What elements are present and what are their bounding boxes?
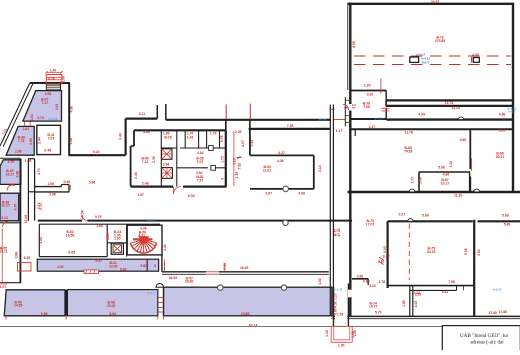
svg-text:6.65: 6.65 bbox=[68, 250, 75, 254]
svg-text:2.48: 2.48 bbox=[142, 182, 149, 186]
svg-text:0.62: 0.62 bbox=[383, 255, 390, 259]
svg-text:7.07: 7.07 bbox=[197, 160, 204, 164]
svg-text:7.08: 7.08 bbox=[363, 105, 370, 109]
svg-text:4.31: 4.31 bbox=[334, 301, 338, 308]
red arc below room B-39 bbox=[3, 222, 9, 228]
svg-text:4.50: 4.50 bbox=[472, 53, 479, 57]
stair tread 1 bbox=[47, 84, 60, 86]
svg-text:16.20: 16.20 bbox=[240, 266, 249, 270]
red tick band2 3 bbox=[157, 316, 159, 320]
red mark notch bbox=[69, 185, 71, 190]
small rooms divider h bbox=[107, 242, 126, 244]
svg-text:7.98: 7.98 bbox=[448, 280, 455, 284]
red box symbol left bbox=[18, 263, 32, 272]
svg-text:4.99: 4.99 bbox=[298, 191, 305, 195]
svg-text:0.80: 0.80 bbox=[15, 171, 19, 178]
svg-text:1.76: 1.76 bbox=[379, 280, 386, 284]
svg-text:12.74: 12.74 bbox=[445, 101, 454, 105]
elevator red X bbox=[113, 245, 122, 253]
svg-text:5.68: 5.68 bbox=[140, 264, 147, 268]
wall B-72 strip right bbox=[332, 105, 334, 316]
svg-text:3.25: 3.25 bbox=[232, 158, 236, 165]
svg-text:26.87: 26.87 bbox=[431, 0, 440, 4]
svg-text:17.07: 17.07 bbox=[366, 223, 375, 227]
door gap V12 lower bbox=[348, 290, 352, 298]
svg-text:11.20: 11.20 bbox=[454, 193, 462, 197]
svg-text:2.88: 2.88 bbox=[15, 149, 22, 153]
svg-text:4.94: 4.94 bbox=[39, 237, 43, 244]
wall rooms col top bbox=[28, 158, 34, 160]
svg-text:1.13: 1.13 bbox=[413, 291, 420, 295]
elevator outer box bbox=[111, 243, 123, 254]
svg-text:7.12: 7.12 bbox=[142, 160, 149, 164]
svg-text:23.30: 23.30 bbox=[109, 265, 118, 269]
svg-text:h=2.7: h=2.7 bbox=[508, 110, 516, 114]
red stub above H2 a bbox=[225, 105, 227, 120]
svg-text:0.85: 0.85 bbox=[334, 308, 338, 315]
svg-text:1.68: 1.68 bbox=[419, 177, 423, 184]
red dim cross V12 bbox=[344, 107, 356, 109]
corridor B-57a fill (bottom band cell 3) bbox=[164, 287, 332, 316]
svg-text:2.96: 2.96 bbox=[49, 193, 56, 197]
partition x470 lower bbox=[469, 177, 471, 193]
svg-text:14.55: 14.55 bbox=[14, 304, 23, 308]
wall b-r closer bbox=[456, 286, 458, 291]
svg-text:1.43: 1.43 bbox=[187, 136, 194, 140]
band2 stair tread 2 bbox=[158, 302, 163, 304]
room B-67 top wall bbox=[419, 171, 470, 173]
door box on wall 2 bbox=[211, 165, 216, 170]
column on band2 a bbox=[218, 285, 223, 290]
door marks B-78 right bbox=[382, 108, 390, 111]
red cross corridor h bbox=[237, 157, 242, 159]
svg-text:0.60: 0.60 bbox=[460, 138, 467, 142]
corridor wall lower right bbox=[387, 118, 514, 120]
svg-text:10.17: 10.17 bbox=[441, 181, 450, 185]
svg-text:1.40: 1.40 bbox=[325, 330, 329, 337]
svg-text:13.14: 13.14 bbox=[451, 106, 460, 110]
shaft 1 box bbox=[162, 149, 172, 160]
room B-57 bottom wall 2 bbox=[162, 273, 329, 275]
block right wall upper ext bbox=[225, 120, 227, 131]
wall notch h bbox=[62, 184, 69, 186]
red dim vline B78 bbox=[380, 79, 382, 94]
stair tread red 1 bbox=[47, 76, 61, 78]
svg-text:1.75: 1.75 bbox=[235, 172, 239, 179]
svg-text:4.96: 4.96 bbox=[499, 112, 506, 116]
block top row bottom a bbox=[161, 147, 177, 149]
door arc room3 bbox=[7, 184, 14, 191]
svg-text:5.49: 5.49 bbox=[504, 222, 511, 226]
shaft 2 box bbox=[162, 168, 173, 179]
door arc corridor gap bbox=[82, 215, 87, 220]
red dim hatch mark 2 bbox=[379, 262, 384, 265]
svg-text:5: 5 bbox=[154, 264, 156, 268]
svg-text:5: 5 bbox=[220, 178, 224, 180]
band2 divider wall bbox=[65, 290, 67, 316]
block left jog bbox=[131, 145, 134, 147]
svg-text:1.27: 1.27 bbox=[334, 293, 338, 300]
svg-text:7.62: 7.62 bbox=[238, 163, 242, 170]
wall inner diagonal bbox=[3, 84, 33, 147]
svg-text:b=141: b=141 bbox=[319, 117, 327, 121]
block bottom wall a bbox=[131, 186, 173, 188]
stair arc bump band2 bbox=[156, 284, 164, 288]
band2 stair tread 1 bbox=[158, 297, 163, 299]
red hatched door on band1 bbox=[84, 270, 99, 274]
block top row bottom c bbox=[212, 147, 226, 149]
block mid divider b bbox=[213, 167, 226, 169]
title block box bbox=[442, 326, 520, 351]
room B-62 bottom bbox=[39, 256, 107, 258]
block inner v x206 bbox=[206, 130, 208, 148]
door box on wall 1 bbox=[209, 146, 214, 151]
svg-text:b=1.5: b=1.5 bbox=[147, 291, 155, 295]
door line room1-2 a bbox=[24, 121, 26, 126]
room B-39 fill bbox=[0, 193, 19, 221]
svg-text:2.91: 2.91 bbox=[55, 104, 59, 111]
svg-text:1.40: 1.40 bbox=[353, 330, 357, 337]
svg-text:2.02: 2.02 bbox=[414, 301, 418, 308]
svg-text:1.08: 1.08 bbox=[25, 159, 32, 163]
wall door jamb stub 1 bbox=[156, 105, 158, 119]
wall room3 top piece bbox=[0, 157, 20, 159]
svg-text:0.90: 0.90 bbox=[357, 275, 364, 279]
door leaf corridor gap bbox=[81, 215, 83, 220]
svg-text:1.85: 1.85 bbox=[402, 300, 406, 307]
elevator inner box bbox=[113, 245, 122, 253]
svg-text:3.88: 3.88 bbox=[14, 252, 18, 259]
red dim vline band1 end bbox=[164, 260, 166, 272]
wall x413 down b bbox=[412, 286, 414, 317]
svg-text:5.66: 5.66 bbox=[502, 214, 509, 218]
svg-text:7.78: 7.78 bbox=[18, 139, 25, 143]
block inner v x185 bbox=[184, 130, 186, 148]
block mid divider a bbox=[177, 167, 208, 169]
svg-text:1.67: 1.67 bbox=[337, 312, 344, 316]
svg-text:6.42: 6.42 bbox=[442, 290, 449, 294]
exit stair inner box (red) bbox=[334, 326, 350, 340]
hall dashed line 1 bbox=[354, 55, 511, 57]
wall stair tread r3 bbox=[345, 114, 351, 116]
svg-text:24.88: 24.88 bbox=[241, 312, 250, 316]
wall vertical jog x125 bbox=[124, 119, 126, 156]
door bump on y221 wall bbox=[408, 219, 413, 222]
red dim vline B-67 bbox=[470, 158, 472, 171]
svg-text:1.17: 1.17 bbox=[336, 129, 343, 133]
wall y186 piece bbox=[35, 186, 62, 188]
svg-text:2.88: 2.88 bbox=[143, 130, 150, 134]
hall dashed line 2 bbox=[354, 64, 511, 66]
wall stair tread r4 bbox=[345, 121, 351, 123]
room B-37 fill (top-left trapezoid) bbox=[23, 91, 62, 122]
hall bottom wall bbox=[386, 99, 513, 101]
svg-text:0.76: 0.76 bbox=[48, 77, 55, 81]
svg-text:4.41: 4.41 bbox=[163, 244, 167, 251]
svg-text:b=1.02: b=1.02 bbox=[493, 287, 502, 291]
red dim vline far left bbox=[1, 228, 3, 282]
room B-78 right wall b bbox=[385, 108, 387, 119]
svg-text:10.27: 10.27 bbox=[1, 204, 10, 208]
svg-text:0.94: 0.94 bbox=[250, 140, 254, 147]
stair room right wall lower bbox=[161, 255, 163, 272]
svg-text:b=2.0: b=2.0 bbox=[147, 218, 155, 222]
spiral staircase arc bbox=[130, 243, 156, 253]
door break B57 bottom bbox=[206, 271, 219, 275]
room B-41 outline bbox=[37, 125, 61, 154]
svg-text:0.9: 0.9 bbox=[352, 103, 356, 107]
wall x474 vertical bbox=[473, 220, 475, 317]
door leaf below block bbox=[172, 187, 174, 195]
svg-text:20.21: 20.21 bbox=[496, 155, 505, 159]
svg-text:273.65: 273.65 bbox=[435, 39, 445, 43]
column on band2 b bbox=[281, 285, 286, 290]
band1 divider bbox=[146, 259, 148, 271]
corridor wall upper right bbox=[386, 105, 513, 107]
svg-text:17.88: 17.88 bbox=[499, 310, 508, 314]
svg-text:6.30: 6.30 bbox=[24, 256, 31, 260]
svg-text:2.44: 2.44 bbox=[37, 137, 41, 144]
block top wall bbox=[134, 129, 226, 131]
svg-text:2.35: 2.35 bbox=[152, 156, 156, 163]
room B-67 right wall bbox=[469, 172, 471, 191]
wall outer diagonal bbox=[0, 83, 30, 146]
svg-text:1.65: 1.65 bbox=[96, 224, 103, 228]
block bottom wall b bbox=[183, 186, 226, 188]
svg-text:0.94: 0.94 bbox=[163, 162, 170, 166]
svg-text:1.52: 1.52 bbox=[318, 278, 322, 285]
room B-75 left wall bbox=[387, 221, 389, 288]
room B-65 top wall bbox=[352, 128, 514, 130]
svg-text:3.49: 3.49 bbox=[119, 133, 123, 140]
block inner v x176 bbox=[176, 130, 178, 186]
svg-text:2.93: 2.93 bbox=[45, 92, 52, 96]
block left wall upper bbox=[133, 130, 135, 146]
svg-text:4.86: 4.86 bbox=[443, 173, 450, 177]
svg-text:4.90: 4.90 bbox=[70, 106, 74, 113]
red tick band2 1 bbox=[5, 316, 7, 320]
door arc below block bbox=[173, 187, 181, 195]
room B-40 fill bbox=[0, 160, 21, 185]
svg-text:4.22: 4.22 bbox=[449, 161, 453, 168]
block left wall lower bbox=[130, 146, 132, 187]
svg-text:3.81: 3.81 bbox=[378, 260, 385, 264]
svg-text:1.40: 1.40 bbox=[50, 69, 57, 73]
column in B-57 bbox=[283, 220, 288, 225]
hall top wall bbox=[348, 3, 515, 5]
svg-text:0.98: 0.98 bbox=[61, 76, 65, 83]
svg-text:5.99: 5.99 bbox=[499, 129, 506, 133]
svg-text:0.48: 0.48 bbox=[63, 180, 70, 184]
svg-text:1.70: 1.70 bbox=[8, 160, 15, 164]
svg-text:0.75: 0.75 bbox=[220, 135, 224, 142]
svg-text:1.73: 1.73 bbox=[220, 156, 224, 163]
wall stair strip left bbox=[344, 97, 346, 126]
svg-text:1.73: 1.73 bbox=[210, 131, 217, 135]
block right wall bbox=[225, 130, 227, 186]
svg-text:b=1.41: b=1.41 bbox=[334, 287, 343, 291]
svg-text:1.02: 1.02 bbox=[30, 114, 34, 121]
svg-text:5.03: 5.03 bbox=[383, 246, 387, 253]
wall B-52 right v bbox=[313, 155, 315, 189]
exit stair outer box (red) bbox=[331, 326, 352, 342]
red tick strip top bbox=[329, 108, 334, 110]
svg-text:5.24: 5.24 bbox=[93, 150, 100, 154]
svg-text:3.74: 3.74 bbox=[37, 116, 44, 120]
red tick 1.40 a bbox=[45, 71, 47, 73]
band2 stair tread 4 bbox=[158, 311, 163, 313]
svg-text:14.11: 14.11 bbox=[0, 250, 8, 254]
svg-text:17.80: 17.80 bbox=[488, 311, 497, 315]
corridor B-61 fill (upper lavender strip) bbox=[37, 259, 158, 271]
svg-text:1.90: 1.90 bbox=[163, 131, 170, 135]
room B-67 left wall bbox=[418, 172, 420, 191]
svg-text:2.29: 2.29 bbox=[364, 83, 371, 87]
svg-text:5.08: 5.08 bbox=[438, 166, 445, 170]
hall bottom wall step bbox=[385, 100, 387, 106]
wall stair tread r1 bbox=[345, 99, 351, 101]
wall notch v2 bbox=[68, 185, 70, 192]
svg-text:7.67: 7.67 bbox=[48, 137, 55, 141]
svg-text:B-26: B-26 bbox=[164, 136, 171, 140]
room B-78 right wall a bbox=[385, 91, 387, 106]
svg-text:63.14: 63.14 bbox=[249, 324, 258, 328]
red door mark B-44 bbox=[107, 233, 109, 240]
exit passage right wall bbox=[347, 284, 349, 327]
svg-text:1.90: 1.90 bbox=[338, 343, 345, 347]
door bump on y192 wall left bbox=[409, 189, 415, 192]
svg-text:2.39: 2.39 bbox=[235, 130, 242, 134]
wall y192 piece bbox=[35, 191, 70, 193]
band2 stairs edge right bbox=[163, 287, 165, 316]
wall left main vertical bbox=[19, 159, 21, 284]
wall stair tread r2 bbox=[345, 107, 351, 109]
red dim hatch mark 1 bbox=[379, 257, 384, 260]
wall b-r 2 bbox=[367, 279, 369, 285]
wall bottom of left rooms bbox=[0, 282, 21, 284]
svg-text:b=3.10: b=3.10 bbox=[49, 117, 58, 121]
stair side right bbox=[60, 84, 62, 91]
shaft 2 red X bbox=[162, 168, 173, 179]
svg-text:1.77: 1.77 bbox=[411, 177, 415, 184]
shaft 1 red X bbox=[162, 149, 172, 160]
svg-text:3.13: 3.13 bbox=[1, 216, 8, 220]
svg-text:2.74: 2.74 bbox=[39, 203, 43, 210]
stair tread 3 bbox=[47, 88, 60, 90]
right section main left wall bbox=[349, 3, 351, 317]
wall top edge left section bbox=[30, 82, 70, 84]
stair tread red 2 bbox=[47, 79, 61, 81]
svg-text:5.46: 5.46 bbox=[89, 181, 96, 185]
svg-text:6.47: 6.47 bbox=[95, 259, 102, 263]
block inner v x161 bbox=[160, 130, 162, 186]
svg-text:16.56: 16.56 bbox=[66, 234, 75, 238]
wall rooms col divider bbox=[28, 191, 34, 193]
corridor wall y220 a bbox=[38, 220, 82, 222]
svg-text:1.93: 1.93 bbox=[114, 237, 121, 241]
svg-text:2.65: 2.65 bbox=[29, 138, 33, 145]
hall column 2 bbox=[473, 58, 479, 63]
svg-text:2.40: 2.40 bbox=[134, 172, 138, 179]
svg-text:1.82: 1.82 bbox=[22, 127, 29, 131]
wall 7.55 top bbox=[249, 128, 331, 130]
wall y221 right b bbox=[478, 220, 520, 222]
wall left rooms top y222 bbox=[0, 222, 20, 224]
exit passage left wall bbox=[333, 287, 335, 326]
wall B-52 bottom bbox=[250, 188, 314, 190]
svg-text:3.11: 3.11 bbox=[139, 112, 146, 116]
wall rooms col right x34 bbox=[34, 159, 36, 221]
wall V right of left section bbox=[68, 83, 70, 156]
room B-38 fill bbox=[6, 126, 34, 155]
room B-57 bottom wall bbox=[162, 271, 329, 273]
wall B-52 mid h bbox=[250, 154, 314, 156]
svg-text:7.27: 7.27 bbox=[197, 179, 204, 183]
svg-text:1.47: 1.47 bbox=[187, 131, 194, 135]
wall corridor right x28 bbox=[27, 159, 29, 221]
red dim vline block right bbox=[233, 131, 235, 186]
svg-text:0.75: 0.75 bbox=[14, 204, 18, 211]
wall x410 down a bbox=[409, 286, 411, 317]
svg-text:4.50: 4.50 bbox=[477, 249, 481, 256]
door red line B57 a bbox=[206, 271, 219, 273]
hall right wall bbox=[512, 4, 514, 192]
stair side left bbox=[45, 84, 47, 91]
wall door jamb stub 2 bbox=[165, 104, 167, 120]
wall b-r top bbox=[387, 285, 475, 287]
svg-text:20.42: 20.42 bbox=[107, 304, 116, 308]
block inner v x198 bbox=[198, 130, 200, 148]
svg-text:4.74: 4.74 bbox=[37, 168, 41, 175]
hall left wall inner face bbox=[347, 3, 349, 90]
building bottom wall right bbox=[333, 315, 520, 317]
svg-text:3.02: 3.02 bbox=[369, 284, 376, 288]
block inner v x219 bbox=[219, 130, 221, 148]
svg-text:5.66: 5.66 bbox=[422, 214, 429, 218]
svg-text:5.79: 5.79 bbox=[375, 311, 382, 315]
door mark V12 lower bbox=[348, 290, 352, 298]
wall b-r divider bbox=[462, 286, 464, 291]
room B-78 top wall bbox=[350, 90, 387, 92]
red tick band2 2 bbox=[65, 316, 67, 320]
door jamb B-65 left bbox=[354, 129, 356, 136]
svg-text:4.40: 4.40 bbox=[57, 265, 64, 269]
hall column 1 bbox=[410, 57, 419, 62]
wall notch v1 bbox=[61, 185, 63, 187]
corridor second line y224 bbox=[39, 223, 160, 225]
wall b-r 1 bbox=[352, 278, 368, 280]
wall B-52 left v bbox=[249, 129, 251, 156]
svg-text:4.84: 4.84 bbox=[197, 151, 204, 155]
svg-text:0.75: 0.75 bbox=[95, 215, 102, 219]
svg-text:26.93: 26.93 bbox=[169, 276, 178, 280]
svg-text:8.59: 8.59 bbox=[109, 312, 116, 316]
svg-text:adresas (-ai): dai: adresas (-ai): dai bbox=[470, 341, 504, 346]
svg-text:74.28: 74.28 bbox=[404, 150, 413, 154]
svg-text:4.08: 4.08 bbox=[277, 159, 284, 163]
red tick left of column 2 bbox=[471, 57, 473, 63]
corridor B-58 fill (bottom band cell 2) bbox=[67, 290, 157, 316]
door red line B57 b bbox=[206, 273, 219, 275]
block top row bottom b bbox=[180, 147, 208, 149]
door arc B-78 left bbox=[343, 104, 349, 110]
svg-text:2.80: 2.80 bbox=[9, 183, 16, 187]
spiral staircase bar bbox=[133, 238, 153, 240]
red hatch lines bbox=[86, 270, 96, 274]
svg-text:6.02: 6.02 bbox=[188, 194, 195, 198]
room B-62 right bbox=[106, 224, 108, 256]
svg-text:9.96: 9.96 bbox=[41, 312, 48, 316]
